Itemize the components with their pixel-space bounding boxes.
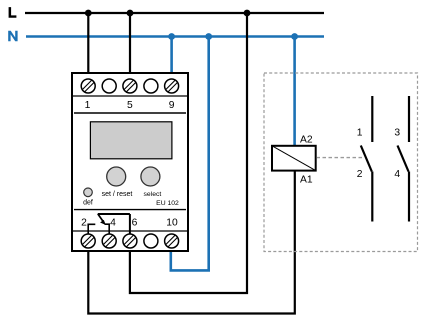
svg-text:4: 4	[110, 218, 116, 229]
svg-text:3: 3	[394, 127, 400, 138]
junction dot N/term9	[168, 33, 175, 40]
svg-text:set / reset: set / reset	[102, 191, 133, 198]
button set/reset	[107, 167, 126, 186]
wire N to coil A2	[293, 37, 296, 147]
svg-text:1: 1	[357, 127, 363, 138]
wire L to terminal 1	[87, 13, 89, 80]
mechanical link (dashed)	[317, 157, 365, 159]
wire N line	[26, 35, 324, 38]
terminal screw top-2 (unused)	[102, 79, 116, 93]
internal relay contact of timer	[88, 214, 130, 234]
LED def	[84, 188, 93, 197]
svg-text:2: 2	[357, 169, 363, 180]
terminal screw 9	[165, 79, 179, 93]
svg-text:1: 1	[85, 100, 91, 111]
terminal screw 2	[81, 234, 95, 248]
svg-text:2: 2	[81, 218, 87, 229]
terminal screw 1	[81, 79, 95, 93]
svg-text:9: 9	[169, 100, 175, 111]
wire L to terminal 5	[129, 13, 131, 80]
LCD display	[90, 122, 171, 159]
svg-text:5: 5	[127, 100, 133, 111]
svg-text:10: 10	[166, 218, 178, 229]
button select	[141, 167, 160, 186]
svg-text:A2: A2	[300, 135, 313, 146]
contactor dashed enclosure	[264, 73, 418, 252]
junction dot L/term1	[85, 10, 92, 17]
svg-text:select: select	[144, 191, 162, 198]
wire N to terminal 9	[170, 37, 173, 81]
svg-text:4: 4	[394, 169, 400, 180]
wire L to terminal 6	[130, 13, 247, 293]
contact 3-4	[398, 96, 410, 222]
svg-text:EU 102: EU 102	[156, 200, 179, 207]
node N	[8, 31, 17, 42]
wire L line	[25, 12, 324, 14]
wire N to terminal 10	[171, 37, 209, 271]
timer U1 body outline	[72, 73, 188, 251]
svg-text:A1: A1	[300, 174, 313, 185]
contact 1-2	[361, 96, 373, 222]
coil K1	[272, 146, 316, 171]
svg-text:6: 6	[132, 218, 138, 229]
junction dot N/A2	[291, 33, 298, 40]
terminal screw top-4 (unused)	[144, 79, 158, 93]
node L	[9, 7, 17, 18]
svg-text:def: def	[83, 200, 93, 207]
wire terminal 2 to coil A1	[88, 170, 294, 314]
terminal screw 4	[102, 234, 116, 248]
terminal screw bottom-4 (unused)	[144, 234, 158, 248]
terminal screw 10	[165, 234, 179, 248]
junction dot N/term10	[205, 33, 212, 40]
junction dot L/term6	[244, 10, 251, 17]
terminal screw 6	[123, 234, 137, 248]
junction dot L/term5	[127, 10, 134, 17]
terminal screw 5	[123, 79, 137, 93]
